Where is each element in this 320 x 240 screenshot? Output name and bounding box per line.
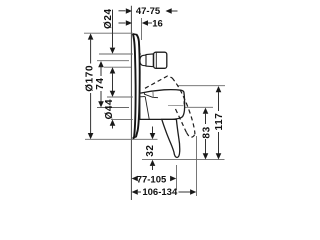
dimension 74 <box>95 61 106 107</box>
svg-text:Ø44: Ø44 <box>104 99 115 120</box>
extension line knob center <box>97 60 129 62</box>
plate top bevel <box>133 33 137 36</box>
extension line hub bottom <box>111 118 135 120</box>
dimension 16 <box>119 18 163 40</box>
knob cap bevel <box>155 53 157 68</box>
svg-text:16: 16 <box>152 18 163 29</box>
handle collar seam <box>152 91 154 98</box>
extension line hub center left <box>97 107 129 109</box>
hub top edge <box>140 96 145 98</box>
dimension 117 <box>214 86 225 160</box>
dimension Ø44 <box>104 99 115 129</box>
raised handle dashed apex <box>145 76 172 88</box>
knob ring <box>146 54 153 67</box>
extension line handle tip <box>176 165 178 190</box>
svg-text:74: 74 <box>95 77 106 89</box>
handle lever <box>162 119 180 157</box>
dimension 83 <box>202 108 213 160</box>
plate front edge <box>136 34 140 137</box>
knob cap <box>154 52 167 68</box>
svg-text:77-105: 77-105 <box>137 175 167 186</box>
handle body <box>140 90 185 120</box>
extension line hub center right <box>185 106 213 108</box>
raised handle dashed front edge <box>172 78 195 134</box>
dimension 47-75 <box>119 6 178 17</box>
extension line hub top <box>107 96 136 98</box>
extension line handle bottom <box>142 159 225 161</box>
knob neck <box>140 55 146 66</box>
svg-text:83: 83 <box>202 126 213 138</box>
extension line knob bottom <box>104 66 131 68</box>
plate back edge <box>133 34 136 139</box>
raised handle dashed back edge <box>176 109 187 133</box>
dimension Ø170 <box>84 33 95 139</box>
escutcheon plate <box>133 34 140 139</box>
raised handle dashed tip <box>187 133 195 138</box>
dimension 32 <box>145 127 156 171</box>
svg-text:32: 32 <box>145 144 156 156</box>
svg-text:117: 117 <box>214 113 225 131</box>
extension line raised handle tip <box>196 136 198 196</box>
handle notch <box>184 101 186 105</box>
dimension Ø24 <box>103 8 115 97</box>
svg-text:47-75: 47-75 <box>136 6 161 17</box>
svg-text:Ø170: Ø170 <box>84 65 95 92</box>
extension line raised handle top <box>177 85 225 87</box>
dimension 77-105 <box>132 175 177 186</box>
hub front edge <box>145 97 149 120</box>
dimension 106-134 <box>132 187 197 198</box>
svg-text:106-134: 106-134 <box>142 187 178 198</box>
wall line <box>130 6 132 200</box>
handle seam <box>168 104 184 106</box>
plate bottom bevel <box>133 137 136 139</box>
handle rear step <box>144 93 158 98</box>
extension line plate top <box>84 32 133 34</box>
extension line plate bottom <box>85 138 158 140</box>
extension line knob top <box>99 53 141 55</box>
